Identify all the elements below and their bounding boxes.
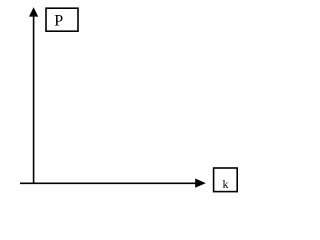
label box k	[214, 168, 238, 192]
svg-text:P: P	[54, 13, 63, 30]
label box P	[46, 8, 78, 31]
horizontal axis arrowhead (right)	[195, 179, 206, 188]
horizontal axis (k axis) wire	[20, 182, 196, 184]
vertical axis arrowhead (up)	[29, 7, 38, 16]
svg-text:k: k	[223, 177, 229, 191]
vertical axis (P axis) wire	[33, 15, 35, 185]
